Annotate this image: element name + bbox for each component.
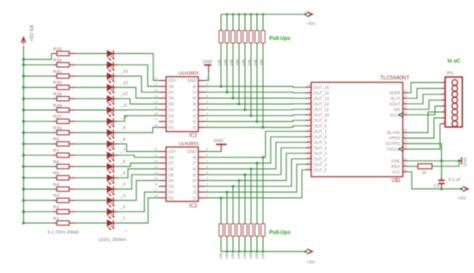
wire +5V rail to R31 [24, 75, 54, 77]
LED row 7 [107, 118, 118, 128]
wire IC2 I6 to TLC OUT_13 [206, 97, 306, 99]
svg-text:23: 23 [403, 129, 407, 133]
svg-text:O7: O7 [168, 161, 174, 166]
wire IC3 I5 to TLC OUT_4 [206, 148, 306, 175]
pull-up resistor (top) #5 10K [242, 14, 247, 66]
node junction on +5V rail row 15 [22, 210, 25, 213]
wire +5V rail to R8 [24, 143, 54, 145]
wire R32 to LED [75, 64, 107, 66]
wire top pull-up #8 down to net [262, 43, 264, 128]
wire top pull-up #5 down to net [244, 43, 246, 110]
node junction on +5V rail row 9 [22, 143, 25, 146]
svg-text:BLANK: BLANK [387, 130, 401, 135]
svg-text:27: 27 [403, 134, 407, 138]
wire +5V rail to R27 [24, 120, 54, 122]
svg-text:O5: O5 [168, 172, 174, 177]
svg-text:OUT_0: OUT_0 [314, 167, 328, 172]
wire bottom pull-up #6 up to net [250, 169, 252, 224]
svg-text:13: 13 [154, 165, 158, 169]
wire LED row 1 to ULN pin [115, 54, 159, 81]
svg-text:12: 12 [154, 159, 158, 163]
wire top pull-up #7 down to net [256, 43, 258, 122]
svg-text:DCPRG: DCPRG [386, 141, 401, 146]
wire TLC SOUT to JP1 pin 3 [407, 94, 441, 104]
junction top rail #4 [238, 13, 240, 15]
wire IC3 I8 to TLC OUT_7 [206, 131, 306, 157]
svg-text:R3: R3 [53, 193, 59, 199]
svg-text:_2: _2 [120, 204, 126, 209]
resistor R3 [53, 193, 75, 202]
svg-text:12: 12 [307, 149, 311, 153]
svg-text:OUT_15: OUT_15 [314, 85, 330, 90]
wire bottom pull-up #3 up to net [232, 186, 234, 224]
wire TLC BLANK to JP1 pin 6 [407, 112, 441, 133]
svg-text:17: 17 [403, 100, 407, 104]
pull-up resistor (bottom) #1 10K [219, 224, 223, 259]
wire R2 to LED [75, 211, 107, 213]
resistor R4 [53, 182, 75, 191]
svg-text:_6: _6 [120, 159, 126, 164]
svg-text:XERR: XERR [389, 90, 400, 95]
wire IC2 I2 to TLC OUT_9 [206, 120, 306, 121]
wire R29 to LED [75, 98, 107, 100]
wire bottom pull-up #7 up to net [256, 163, 258, 224]
wire LED row 7 to ULN pin [115, 116, 159, 122]
svg-text:14: 14 [154, 100, 158, 104]
junction bottom pull-up #7 [256, 162, 259, 165]
junction top pull-up #7 [256, 120, 259, 123]
LED row 5 [107, 96, 118, 106]
svg-text:OUT_13: OUT_13 [314, 96, 330, 101]
wire TLC DCPRG to GND net [407, 144, 441, 161]
svg-text:11: 11 [154, 154, 158, 158]
LED row 9 [107, 141, 118, 151]
wire +5V rail to R2 [24, 211, 54, 213]
svg-text:10K: 10K [225, 252, 229, 259]
svg-text:4: 4 [443, 97, 445, 101]
junction top pull-up #4 [238, 103, 241, 106]
wire LED row 8 to ULN pin [115, 127, 159, 132]
wire TLC SCLK to JP1 pin 5 [407, 106, 441, 115]
svg-text:14: 14 [154, 171, 158, 175]
junction bottom rail #5 [244, 250, 246, 252]
pull-up resistor (top) #6 10K [248, 14, 253, 66]
svg-text:R6: R6 [53, 159, 59, 165]
wire R26 to LED [75, 132, 107, 134]
svg-text:IC3: IC3 [189, 203, 197, 209]
pull-up resistor (bottom) #7 10K [255, 224, 259, 259]
wire TLC GSCLK to JP1 pin 8 [407, 124, 441, 149]
wire IC3 I4 to TLC OUT_3 [206, 153, 306, 180]
svg-text:ULN2803: ULN2803 [179, 71, 199, 76]
svg-text:9: 9 [309, 133, 311, 137]
wire bottom pull-up #5 up to net [244, 175, 246, 224]
LED row 15 [107, 209, 118, 219]
driver IC IC2 ULN2803 [154, 71, 208, 139]
wire LED row 13 to ULN pin [115, 175, 159, 189]
svg-text:R1: R1 [53, 216, 59, 222]
svg-text:O2: O2 [168, 190, 174, 195]
wire R30 to LED [75, 86, 107, 88]
pull-up resistor (bottom) #4 10K [237, 224, 241, 259]
svg-text:U$1: U$1 [392, 178, 401, 184]
svg-text:OUT_1: OUT_1 [314, 162, 328, 167]
svg-text:O6: O6 [168, 96, 174, 101]
svg-text:OUT_9: OUT_9 [314, 118, 328, 123]
wire R7 to LED [75, 154, 107, 156]
junction top rail #3 [232, 13, 234, 15]
svg-text:OUT_8: OUT_8 [314, 123, 328, 128]
wire IC2 I4 to TLC OUT_11 [206, 108, 306, 111]
wire IC3 I1 to TLC OUT_0 [206, 170, 306, 198]
svg-text:1: 1 [443, 79, 445, 83]
wire R1 to LED [75, 222, 107, 224]
junction bottom pull-up #1 [220, 197, 223, 200]
svg-text:20: 20 [403, 162, 407, 166]
svg-text:_12: _12 [120, 91, 129, 96]
pull-up resistor (top) #1 10K [218, 14, 223, 66]
pull-up resistor (top) #7 10K [254, 14, 259, 66]
node junction on +5V rail row 7 [22, 120, 25, 123]
wire bottom pull-up #8 up to net [262, 157, 264, 224]
LED row 3 [107, 73, 118, 83]
node junction on +5V rail row 12 [22, 176, 25, 179]
svg-text:IC2: IC2 [189, 133, 197, 139]
wire R27 to LED [75, 120, 107, 122]
node junction on +5V rail row 11 [22, 165, 25, 168]
wire top pull-up #2 down to net [226, 43, 228, 92]
resistor R6 [53, 159, 75, 168]
node junction on +5V rail row 2 [22, 63, 25, 66]
resistor R27 [53, 114, 75, 123]
svg-text:VPRG: VPRG [389, 136, 401, 141]
svg-text:17: 17 [154, 118, 158, 122]
svg-text:16: 16 [154, 183, 158, 187]
svg-text:O1: O1 [168, 125, 174, 130]
svg-text:16: 16 [154, 112, 158, 116]
wire R4 to LED [75, 188, 107, 190]
resistor 1k (IREF) [418, 164, 432, 175]
svg-text:25: 25 [403, 111, 407, 115]
svg-text:22: 22 [403, 157, 407, 161]
resistor R8 [53, 137, 75, 146]
svg-text:15: 15 [154, 177, 158, 181]
resistor R29 [53, 92, 75, 101]
ground symbol at IC3 pin 9 [206, 138, 227, 151]
svg-text:GND: GND [203, 59, 213, 64]
resistor R7 [53, 148, 75, 157]
svg-text:10K: 10K [249, 252, 253, 259]
svg-text:O5: O5 [168, 102, 174, 107]
LED row 12 [107, 175, 118, 185]
junction bottom pull-up #3 [232, 185, 235, 188]
svg-text:18: 18 [154, 124, 158, 128]
svg-text:OUT_5: OUT_5 [314, 140, 328, 145]
junction top rail #8 [262, 13, 264, 15]
supply +5V arrow far right [460, 188, 463, 191]
svg-text:3: 3 [309, 100, 311, 104]
svg-text:OUT_2: OUT_2 [314, 156, 328, 161]
wire TLC IREF to 1k resistor [407, 165, 418, 167]
wire LED row 4 to ULN pin [115, 87, 159, 98]
svg-text:6: 6 [443, 108, 445, 112]
pull-up resistor (bottom) #8 10K [261, 224, 265, 259]
svg-text:_9: _9 [120, 125, 126, 130]
wire LED row 9 to ULN pin [115, 144, 159, 152]
junction top pull-up #2 [226, 91, 229, 94]
wire R33 to LED [75, 53, 107, 55]
svg-text:GND: GND [187, 78, 196, 83]
svg-text:10K: 10K [219, 252, 223, 259]
svg-text:Pull-Ups: Pull-Ups [269, 230, 290, 236]
svg-text:2: 2 [443, 85, 445, 89]
wire +5V rail to R7 [24, 154, 54, 156]
junction bottom pull-up #5 [244, 173, 247, 176]
svg-text:R26: R26 [53, 125, 62, 131]
node junction on +5V rail row 10 [22, 154, 25, 157]
resistor R28 [53, 103, 75, 112]
pull-up resistor (bottom) #5 10K [243, 224, 247, 259]
svg-text:GND: GND [214, 138, 224, 143]
resistor R5 [53, 171, 75, 180]
LED row 2 [107, 62, 118, 72]
svg-text:O8: O8 [168, 84, 174, 89]
svg-text:CD+: CD+ [168, 78, 177, 83]
svg-text:LED1_350MA: LED1_350MA [99, 237, 127, 242]
wire top pull-up #6 down to net [250, 43, 252, 116]
svg-text:CD+: CD+ [168, 149, 177, 154]
svg-text:14: 14 [307, 160, 311, 164]
junction top pull-up #6 [250, 114, 253, 117]
svg-text:7: 7 [309, 122, 311, 126]
wire top pull-up #3 down to net [232, 43, 234, 98]
junction bottom pull-up #2 [226, 191, 229, 194]
svg-text:_14: _14 [120, 69, 129, 74]
svg-text:R5: R5 [53, 171, 59, 177]
LED row 10 [107, 152, 118, 162]
resistor R31 [53, 69, 75, 78]
wire IC2 I5 to TLC OUT_12 [206, 103, 306, 105]
svg-text:_13: _13 [120, 80, 129, 85]
LED row 6 [107, 107, 118, 117]
svg-text:12: 12 [154, 88, 158, 92]
node junction on +5V rail row 1 [22, 58, 25, 61]
pull-up resistor (top) #8 10K [260, 14, 265, 66]
svg-text:O1: O1 [168, 196, 174, 201]
svg-text:13: 13 [154, 94, 158, 98]
svg-text:OUT_4: OUT_4 [314, 145, 328, 150]
svg-text:_5: _5 [120, 170, 126, 175]
junction top pull-up #1 [220, 85, 223, 88]
wire R3 to LED [75, 199, 107, 201]
pull-up resistor (top) #3 10K [230, 14, 235, 66]
junction GND/C1 [440, 160, 443, 163]
svg-text:GND: GND [391, 158, 400, 163]
svg-text:O6: O6 [168, 167, 174, 172]
svg-text:SIN: SIN [394, 107, 401, 112]
wire R6 to LED [75, 166, 107, 168]
resistor R26 [53, 125, 75, 134]
svg-text:13: 13 [307, 155, 311, 159]
svg-text:10: 10 [154, 148, 158, 152]
junction top rail #6 [250, 13, 252, 15]
svg-text:5: 5 [443, 102, 445, 106]
svg-text:_4: _4 [120, 182, 126, 187]
svg-text:1: 1 [309, 89, 311, 93]
svg-text:OUT_6: OUT_6 [314, 134, 328, 139]
svg-text:OUT_7: OUT_7 [314, 129, 328, 134]
node junction on +5V rail row 6 [22, 109, 25, 112]
svg-text:+5V: +5V [307, 21, 316, 27]
wire bottom pull-up #2 up to net [226, 192, 228, 224]
supply +5V arrow top right [304, 13, 307, 16]
capacitor C1 0.1 uF [434, 161, 461, 189]
wire +5V rail to R26 [24, 132, 54, 134]
svg-text:XLAT: XLAT [390, 96, 400, 101]
svg-text:IREF: IREF [391, 164, 401, 169]
svg-text:_11: _11 [120, 103, 129, 108]
svg-text:O8: O8 [168, 155, 174, 160]
svg-text:R27: R27 [53, 114, 62, 120]
junction bottom rail #8 [262, 250, 264, 252]
svg-text:_7: _7 [120, 148, 126, 153]
LED row 14 [107, 197, 118, 207]
driver IC IC3 ULN2803 [154, 141, 208, 209]
svg-text:19: 19 [403, 140, 407, 144]
svg-text:R29: R29 [53, 92, 62, 98]
wire bottom pull-up #1 up to net [220, 198, 222, 224]
svg-text:R2: R2 [53, 205, 59, 211]
wire IC3 I3 to TLC OUT_2 [206, 159, 306, 187]
junction top rail #7 [256, 13, 258, 15]
svg-text:O4: O4 [168, 178, 174, 183]
wire +5V rail to R28 [24, 109, 54, 111]
supply +5V 6A arrow [21, 37, 26, 44]
wire bottom +5V rail [221, 251, 306, 253]
svg-text:6: 6 [309, 116, 311, 120]
junction top pull-up #3 [232, 97, 235, 100]
svg-text:GND: GND [187, 149, 196, 154]
LED row 11 [107, 163, 118, 173]
wire +5V rail to R4 [24, 188, 54, 190]
wire R31 to LED [75, 75, 107, 77]
svg-text:VCC: VCC [392, 169, 401, 174]
node junction on +5V rail row 4 [22, 86, 25, 89]
svg-text:O7: O7 [168, 90, 174, 95]
junction bottom pull-up #4 [238, 179, 241, 182]
svg-text:OUT_12: OUT_12 [314, 101, 330, 106]
svg-text:15: 15 [154, 106, 158, 110]
wire bottom pull-up #4 up to net [238, 181, 240, 224]
wire LED row 11 to ULN pin [115, 163, 159, 166]
svg-text:O3: O3 [168, 184, 174, 189]
svg-text:_3: _3 [120, 193, 126, 198]
svg-text:26: 26 [403, 105, 407, 109]
wire TLC VCC to +5V [407, 172, 461, 189]
junction top rail #5 [244, 13, 246, 15]
node junction on +5V rail row 14 [22, 199, 25, 202]
wire top pull-up #4 down to net [238, 43, 240, 104]
pull-up resistor (bottom) #2 10K [225, 224, 229, 259]
wire IC3 I2 to TLC OUT_1 [206, 164, 306, 192]
svg-text:3: 3 [443, 91, 445, 95]
svg-text:8: 8 [443, 120, 445, 124]
svg-text:GND: GND [463, 157, 468, 166]
LED row 8 [107, 129, 118, 139]
wire +5V rail to R33 (dogleg) [24, 54, 54, 60]
LED row 16 [107, 220, 118, 230]
node junction on +5V rail row 8 [22, 131, 25, 134]
wire IC2 I7 to TLC OUT_14 [206, 91, 306, 94]
wire LED row 2 to ULN pin [115, 65, 159, 87]
wire +5V rail to R3 [24, 199, 54, 201]
ground symbol right [459, 157, 468, 167]
pull-up resistor (top) #4 10K [236, 14, 241, 66]
svg-text:R8: R8 [53, 137, 59, 143]
svg-text:10: 10 [307, 138, 311, 142]
resistor R32 [53, 58, 75, 67]
node junction on +5V rail row 5 [22, 97, 25, 100]
svg-text:_8: _8 [120, 136, 126, 141]
svg-text:OUT_10: OUT_10 [314, 112, 330, 117]
svg-text:11: 11 [154, 83, 158, 87]
svg-text:10K: 10K [237, 252, 241, 259]
svg-text:1k: 1k [422, 170, 427, 175]
resistor R33 [53, 46, 75, 55]
wire TLC SIN to JP1 pin 4 [407, 100, 441, 109]
svg-text:JP1: JP1 [446, 71, 454, 76]
svg-text:R4: R4 [53, 182, 59, 188]
wire LED row 15 to ULN pin [115, 192, 159, 212]
svg-text:24: 24 [403, 94, 407, 98]
wire IC3 I6 to TLC OUT_5 [206, 142, 306, 169]
node junction on +5V rail row 13 [22, 188, 25, 191]
svg-text:R7: R7 [53, 148, 59, 154]
LED row 4 [107, 84, 118, 94]
wire R5 to LED [75, 177, 107, 179]
wire TLC GND net [407, 160, 459, 162]
wire +5V rail to R29 [24, 98, 54, 100]
wire +5V rail to R32 [24, 64, 54, 66]
ground symbol at IC2 pin 9 [203, 59, 213, 80]
svg-text:21: 21 [403, 168, 407, 172]
pull-up resistor (bottom) #6 10K [249, 224, 253, 259]
svg-text:ULN2803: ULN2803 [179, 141, 199, 146]
svg-text:+5V 6A: +5V 6A [30, 24, 36, 41]
wire top pull-up #1 down to net [220, 43, 222, 87]
junction C1/+5V [440, 188, 443, 191]
svg-text:R28: R28 [53, 103, 62, 109]
wire TLC XLAT to JP1 pin 2 [407, 88, 441, 98]
svg-text:2: 2 [309, 94, 311, 98]
junction bottom rail #7 [256, 250, 258, 252]
svg-text:5: 5 [309, 111, 311, 115]
svg-text:5.1 Ohm 2Watt: 5.1 Ohm 2Watt [48, 230, 80, 235]
wire +5V rail to R6 [24, 166, 54, 168]
junction bottom rail #3 [232, 250, 234, 252]
wire IC2 I3 to TLC OUT_10 [206, 114, 306, 117]
svg-text:OUT_3: OUT_3 [314, 151, 328, 156]
LED driver IC U$1 TLC5940NT [306, 76, 411, 185]
wire LED row 14 to ULN pin [115, 181, 159, 201]
svg-text:_10: _10 [120, 114, 129, 119]
svg-text:10K: 10K [243, 252, 247, 259]
svg-text:10K: 10K [261, 252, 265, 259]
wire TLC XERR to JP1 pin 1 [407, 83, 441, 93]
supply +5V arrow bottom right [304, 250, 307, 253]
wire R8 to LED [75, 143, 107, 145]
wire LED row 6 to ULN pin [115, 109, 159, 111]
